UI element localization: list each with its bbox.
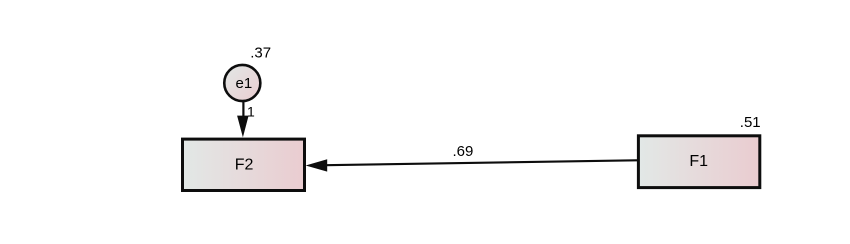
error term circle e1 xyxy=(224,65,260,101)
arrowhead into F2 right xyxy=(306,159,328,171)
svg-text:1: 1 xyxy=(247,103,255,119)
svg-text:F2: F2 xyxy=(235,157,254,174)
svg-text:F1: F1 xyxy=(689,153,708,170)
svg-text:.51: .51 xyxy=(740,114,761,131)
box F2 xyxy=(183,139,305,190)
svg-text:.37: .37 xyxy=(250,44,271,61)
wire e1 to F2 xyxy=(242,101,244,117)
svg-text:.69: .69 xyxy=(453,143,474,160)
svg-text:e1: e1 xyxy=(236,75,253,92)
box F1 xyxy=(638,136,759,188)
wire F1 to F2 xyxy=(326,160,637,165)
arrowhead into F2 top xyxy=(237,116,249,138)
